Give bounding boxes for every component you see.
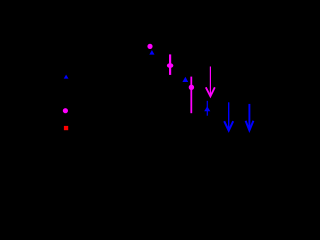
blue down-arrow (upper limit) at x=228.5	[224, 102, 233, 130]
blue triangle marker (185,79.5)	[182, 77, 188, 82]
red square marker (left column bottom)	[64, 126, 68, 130]
blue triangle marker on error bar (207,108.5)	[204, 106, 210, 111]
magenta error bar at x=170	[169, 54, 171, 75]
magenta circle marker (left column middle)	[63, 108, 68, 113]
blue error bar at x=207	[206, 101, 208, 116]
blue down-arrow (upper limit) at x=249.5	[246, 104, 254, 130]
magenta error bar at x=191	[190, 77, 192, 114]
magenta circle marker on error bar (191,87.3)	[189, 85, 194, 90]
magenta circle marker (150,46)	[147, 44, 152, 49]
magenta circle marker on error bar (170,65.5)	[167, 63, 173, 68]
magenta down-arrow (upper limit) at x=210	[206, 67, 215, 97]
blue triangle marker (152,52)	[149, 50, 154, 55]
blue triangle marker (left column top)	[64, 75, 69, 79]
